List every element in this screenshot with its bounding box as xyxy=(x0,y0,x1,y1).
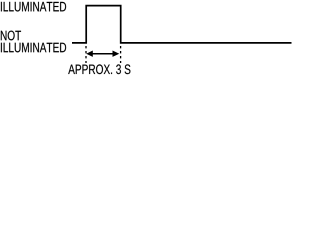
label NOT (low level, line 1) xyxy=(1,31,21,41)
label ILLUMINATED (low level, line 2) xyxy=(1,43,66,53)
wire: signal trace (low baseline, rising edge, high top, falling edge, low baseline) xyxy=(72,6,292,43)
dashed extension line below falling edge xyxy=(120,46,122,63)
dimension arrowhead left xyxy=(86,51,93,57)
label ILLUMINATED (high level) xyxy=(1,2,66,12)
dimension arrow shaft xyxy=(91,53,116,55)
label APPROX. 3 S (pulse duration) xyxy=(68,64,130,74)
dashed extension line below rising edge xyxy=(85,46,87,63)
dimension arrowhead right xyxy=(113,51,120,57)
